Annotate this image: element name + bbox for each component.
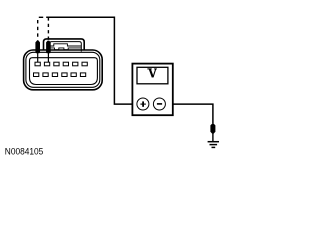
svg-text:N0084105: N0084105 bbox=[5, 146, 44, 157]
